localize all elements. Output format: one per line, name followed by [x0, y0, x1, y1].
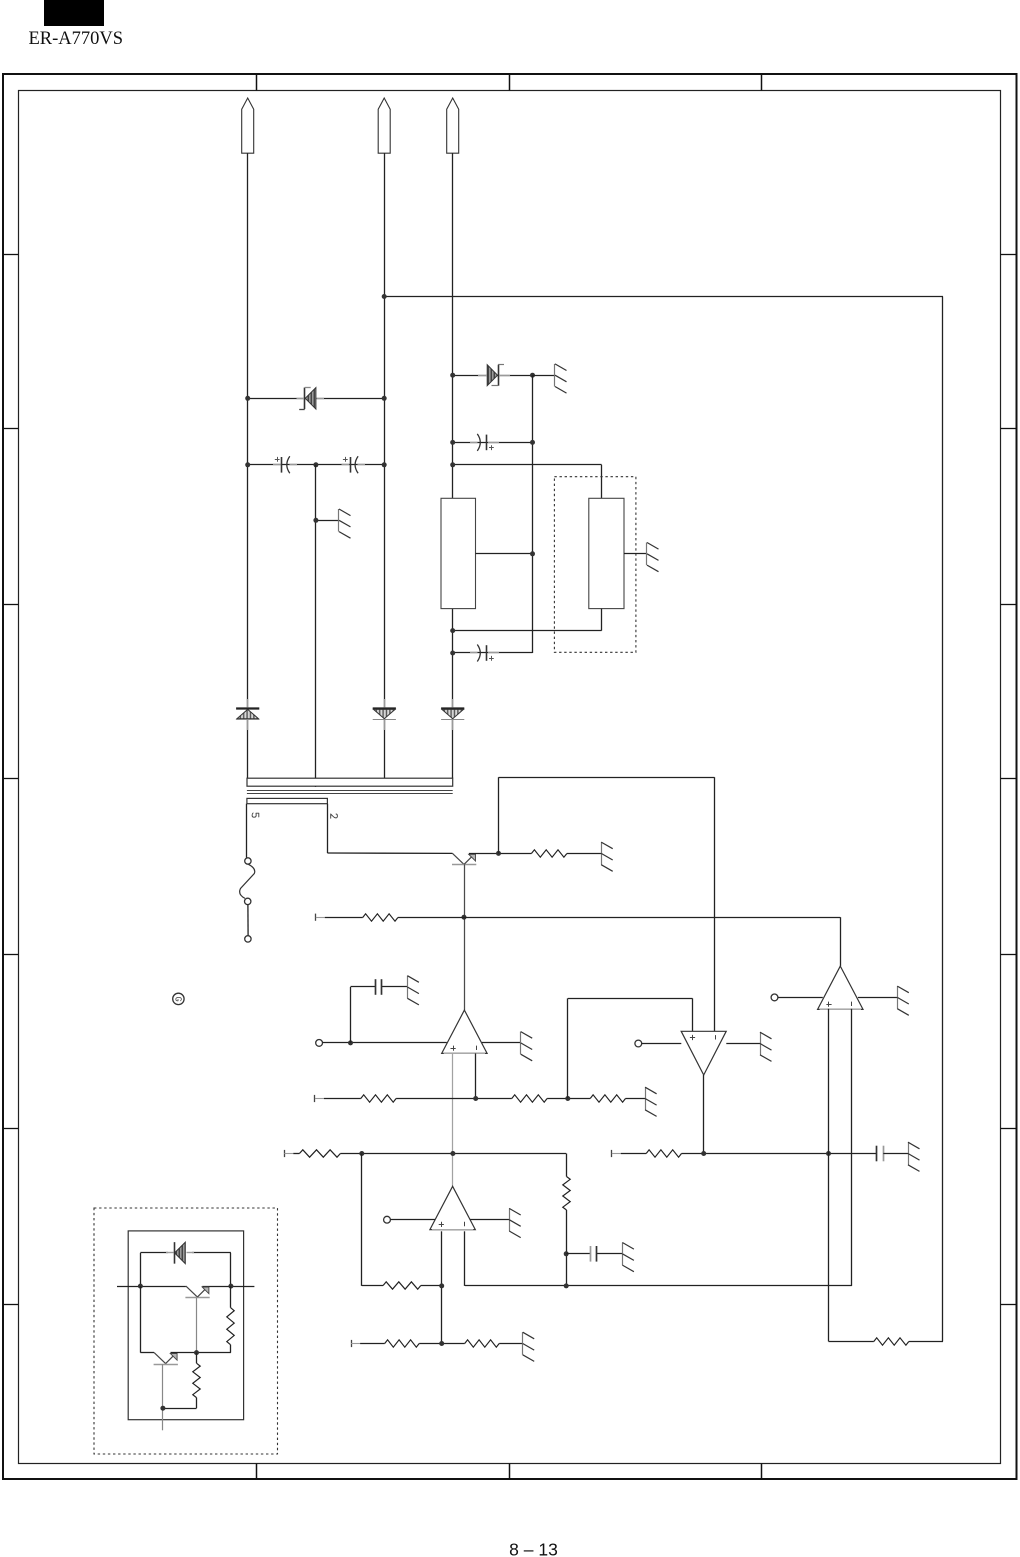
wire rail2r a [621, 1153, 646, 1155]
wire module left drop2 [140, 1286, 142, 1353]
connector label G [173, 993, 184, 1004]
op-amp U2 [681, 1031, 726, 1075]
ground G8 [760, 1032, 772, 1061]
node junction rail2-gray [450, 1151, 455, 1156]
wire r13 leads [230, 1286, 232, 1353]
wire module right drop [230, 1253, 232, 1286]
wire U3 right to ground [470, 1219, 509, 1221]
ground G1 [555, 364, 567, 393]
wire capacitor row A-B [248, 464, 385, 466]
wire pin5 down [246, 804, 248, 858]
switch terminal top [245, 858, 251, 864]
diode D6 [175, 1242, 186, 1264]
wire bus C vertical upper [452, 153, 454, 498]
node junction B-C2 [382, 462, 387, 467]
switch wire segment [247, 905, 249, 936]
page header model text ER-A770VS [29, 29, 124, 49]
terminal T1 [316, 914, 325, 921]
wire bottom fb rail [829, 1341, 874, 1343]
transformer pin 2 label [331, 814, 338, 818]
zener diode D2 [487, 365, 504, 386]
resistor R7 vertical [563, 1177, 570, 1211]
capacitor C4 polarized [477, 645, 494, 662]
wire rail3 c [499, 1343, 523, 1345]
node junction Q1-right [496, 851, 501, 856]
resistor R13 vertical [227, 1308, 234, 1345]
wire rail 917 left [325, 917, 363, 919]
wire stub D2 gray [478, 375, 510, 377]
wire feedback right vertical [942, 297, 944, 1342]
node junction cap6 [564, 1251, 569, 1256]
terminal T3 [284, 1150, 293, 1157]
switch terminal mid [245, 898, 251, 904]
op-amp U4 [818, 966, 863, 1009]
ground G10 [908, 1142, 920, 1171]
wire C to regulator top [453, 464, 602, 466]
resistor R5 [590, 1095, 625, 1102]
node junction U2out-rail [701, 1151, 706, 1156]
transformer primary winding [247, 778, 453, 786]
node junction C-regtop [450, 462, 455, 467]
node junction C-bottomrow [450, 628, 455, 633]
node junction fb-U3plus [439, 1283, 444, 1288]
terminal T2 [315, 1095, 324, 1102]
transformer secondary winding [247, 798, 328, 803]
wire stub D6 gray [166, 1252, 194, 1254]
wire U3 minus down [465, 1231, 852, 1286]
wire mid ground drop [315, 465, 317, 787]
node junction C1-C2 mid [313, 462, 318, 467]
node junction A-C1 [245, 462, 250, 467]
terminal T5 [351, 1340, 360, 1347]
wire cap C5 row [351, 986, 408, 988]
node junction B-D1 [382, 396, 387, 401]
wire stub C1 gray [273, 464, 297, 466]
resistor R6 [299, 1150, 340, 1157]
ground G12 [509, 1208, 521, 1237]
wire bus A vertical [247, 153, 249, 778]
antenna terminal P3 [447, 98, 459, 153]
wire module bottom link [163, 1408, 197, 1410]
wire vertical 532 column [532, 375, 534, 653]
resistor R2 [363, 914, 398, 921]
op-amp U3 [430, 1186, 475, 1229]
module inner box [128, 1231, 243, 1420]
switch flex wire [240, 864, 255, 898]
wire feedback top horizontal [384, 296, 943, 298]
wire rail 917 right [398, 917, 841, 966]
node junction C3-right [530, 440, 535, 445]
wire pin2 down [327, 804, 452, 854]
svg-text:ER-A770VS: ER-A770VS [29, 29, 124, 49]
capacitor C7 [877, 1146, 884, 1162]
node junction U4plus-rail [826, 1151, 831, 1156]
wire stub D1 gray [297, 398, 325, 400]
wire U3 input [390, 1219, 435, 1221]
wire bottom fb rail b [909, 1341, 943, 1343]
wire zener D1 row [248, 398, 385, 400]
ground G2 [339, 509, 351, 538]
node junction mod-bottom [160, 1406, 165, 1411]
regulator U3 body [589, 498, 624, 608]
wire rail3 b [419, 1343, 465, 1345]
ground G6 [521, 1032, 533, 1061]
wire reg mid connector [476, 553, 533, 555]
switch terminal bottom [245, 936, 251, 942]
transformer pin 5 label [252, 813, 259, 817]
svg-text:8 – 13: 8 – 13 [509, 1540, 558, 1557]
zener diode D1 [299, 388, 316, 410]
resistor R10 [385, 1340, 420, 1347]
transistor Q1 [452, 853, 476, 864]
wire cap C6 row [566, 1253, 622, 1255]
input terminal U1 [316, 1040, 323, 1047]
capacitor C6 [591, 1246, 597, 1262]
wire reg right drop [601, 465, 603, 499]
antenna terminal P1 [242, 98, 254, 153]
transformer core lines [247, 791, 453, 794]
diode D4 striped [373, 709, 396, 720]
wire rail2 a [293, 1153, 299, 1155]
wire Q1 emitter right [469, 853, 532, 855]
resistor R1 [531, 850, 567, 857]
wire rail1 b [396, 1098, 512, 1100]
input terminal U3 [384, 1216, 391, 1223]
node junction C-C3 [450, 440, 455, 445]
regulator U2 body [441, 498, 476, 608]
node junction rail1-riser [565, 1096, 570, 1101]
node junction mod-left [138, 1284, 143, 1289]
wire fb drop [362, 1154, 384, 1286]
wire U4 input [778, 997, 823, 999]
wire r14 leads [196, 1353, 198, 1409]
wire rail1 d [626, 1098, 646, 1100]
wire U1 plus down [452, 1053, 454, 1186]
wire U2 input [642, 1043, 682, 1045]
wire capacitor C3 row [453, 442, 533, 444]
node junction rail3-U3plus [439, 1341, 444, 1346]
diode D3 striped [236, 709, 259, 720]
node junction A-D1 [245, 396, 250, 401]
wire D2 to ground [533, 375, 556, 377]
wire riser to opamp2 plus [568, 998, 693, 1098]
wire U4 minus down [851, 1009, 853, 1286]
wire rail2 b [340, 1153, 566, 1155]
page header black label box [44, 0, 104, 26]
ground G7 [645, 1087, 657, 1116]
capacitor C1 polarized [275, 456, 290, 473]
wire U3 right to ground [624, 553, 647, 555]
input terminal U2 [635, 1040, 642, 1047]
wire stub C4 gray [470, 652, 499, 654]
wire U4 plus down [828, 1009, 830, 1342]
input terminal U4 [771, 994, 778, 1001]
transistor Q2 [185, 1286, 209, 1297]
op-amp U1 [442, 1010, 487, 1053]
node junction mid-ground [313, 518, 318, 523]
resistor R3 [361, 1095, 396, 1102]
wire R1 to ground [567, 853, 601, 855]
wire ground stub mid [316, 520, 339, 522]
wire Q3 base down [162, 1364, 164, 1430]
terminal T4 [612, 1150, 621, 1157]
wire rail2r b [682, 1153, 877, 1155]
wire stub D4 gray [384, 699, 386, 730]
wire U2 output down [703, 1075, 705, 1154]
node junction B-feedback [382, 294, 387, 299]
antenna terminal P2 [378, 98, 390, 153]
wire cap C5 drop [350, 987, 352, 1043]
wire top rail to opamp2 [499, 777, 715, 1031]
wire zener D2 row [453, 375, 533, 377]
resistor R14 vertical [193, 1363, 200, 1397]
wire U2 right to ground [726, 1043, 760, 1045]
node junction C-C4 [450, 651, 455, 656]
capacitor C5 [376, 979, 382, 995]
ground G3 [647, 543, 659, 572]
wire Q2 base down [196, 1298, 198, 1353]
node junction rail1-U1minus [473, 1096, 478, 1101]
wire rail3 a [360, 1343, 385, 1345]
wire U1 output right [482, 1042, 521, 1044]
resistor R9 [383, 1282, 421, 1289]
wire rail1 c [547, 1098, 590, 1100]
node junction C-D2 [450, 373, 455, 378]
wire Q1 base down [464, 865, 466, 1010]
wire U3 plus down [441, 1231, 443, 1343]
wire stub C3 gray [470, 442, 499, 444]
wire module diode row [140, 1252, 231, 1254]
wire rail2 corner down [566, 1154, 568, 1177]
dashed box module [94, 1208, 278, 1454]
capacitor C2 polarized [343, 456, 358, 473]
wire U2 bottom junction row [453, 609, 602, 631]
node junction mod-right [228, 1284, 233, 1289]
wire U1 minus down [475, 1053, 477, 1098]
node junction D2-right [530, 373, 535, 378]
ground G11 [622, 1243, 634, 1272]
capacitor C3 polarized [477, 434, 494, 451]
wire rail1 a [324, 1098, 361, 1100]
resistor R8 [646, 1150, 681, 1157]
ground G5 [407, 976, 419, 1005]
wire U4 right to ground [858, 997, 897, 999]
wire module mid line [140, 1352, 231, 1354]
wire fb to junction [421, 1285, 442, 1287]
node junction minusline-riser [564, 1283, 569, 1288]
node junction mid-connector [530, 551, 535, 556]
wire capacitor C4 row [453, 652, 533, 654]
ground G13 [523, 1332, 535, 1361]
wire bus B vertical [384, 153, 386, 778]
diode D5 striped [441, 709, 464, 720]
resistor R12 [874, 1338, 909, 1345]
wire stub C2 gray [342, 464, 366, 466]
wire bus C vertical lower [452, 609, 454, 779]
resistor R11 [465, 1340, 500, 1347]
page number 8-13 [509, 1540, 558, 1557]
node junction Q1-rail [462, 915, 467, 920]
wire U1 input [323, 1042, 447, 1044]
wire r7 down [566, 1210, 568, 1286]
wire cap C7 to ground [883, 1153, 908, 1155]
node junction U1-cap [348, 1040, 353, 1045]
wire module main line [117, 1286, 254, 1288]
transistor Q3 [154, 1353, 178, 1365]
wire Q1 up to top rail [498, 777, 500, 853]
wire stub D5 gray [452, 699, 454, 730]
resistor R4 [512, 1095, 547, 1102]
dashed box regulator [554, 477, 636, 653]
ground G9 [897, 986, 909, 1015]
node junction mod-mid [194, 1350, 199, 1355]
node junction rail2-fb [359, 1151, 364, 1156]
ground G4 [601, 842, 613, 871]
wire stub D3 gray [247, 699, 249, 730]
wire module left drop [140, 1253, 142, 1286]
